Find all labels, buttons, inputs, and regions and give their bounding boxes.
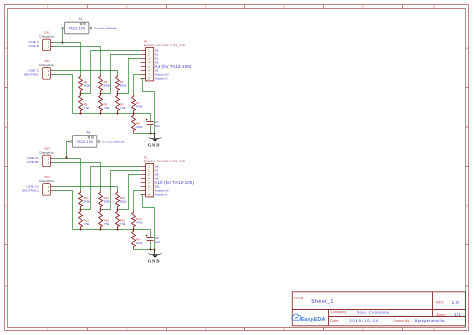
svg-text:TA12-100: TA12-100 (76, 140, 93, 144)
svg-text:500k: 500k (104, 200, 111, 204)
resistor R13 500k (99, 191, 103, 210)
svg-text:EasyEDA: EasyEDA (301, 317, 326, 323)
junction dot divider mid R13 (100, 209, 102, 211)
svg-text:NEUTRAL: NEUTRAL (24, 73, 39, 77)
svg-text:7.5k: 7.5k (84, 106, 90, 110)
resistor R16 500k (116, 191, 120, 210)
junction dot rail R10 (133, 229, 135, 231)
current transformer module A3 TA12-100 (62, 17, 117, 34)
current transformer module A4 TA12-100 (70, 130, 125, 147)
wire TA12 pin1 to junction (62, 29, 64, 43)
junction dot divider mid R11 (80, 209, 82, 211)
svg-text:B: B (5, 125, 7, 129)
svg-text:470k: 470k (136, 241, 143, 245)
svg-text:1/1: 1/1 (454, 312, 461, 317)
svg-text:Your Company: Your Company (357, 310, 390, 315)
wire header pin7 5V to bias resistor top (134, 75, 141, 95)
resistor R3 7.5k (99, 94, 103, 114)
wire divider1 mid to header pin1 (81, 167, 141, 210)
resistor R8 470k (132, 114, 136, 134)
junction dot rail R14 (100, 229, 102, 231)
wire header pin8 to ground (141, 195, 155, 250)
junction dot capacitor ground (150, 249, 152, 251)
EasyEDA logo (292, 314, 325, 323)
junction dot rail R15 (117, 229, 119, 231)
svg-text:470k: 470k (136, 125, 143, 129)
svg-text:Arduino G: Arduino G (155, 193, 168, 197)
resistor R4 500k (99, 75, 103, 94)
svg-text:Bjesperancilla: Bjesperancilla (415, 318, 445, 323)
svg-text:Changzhou: Changzhou (39, 151, 55, 155)
svg-text:470k: 470k (136, 221, 143, 225)
svg-text:Changzhou: Changzhou (39, 179, 55, 183)
svg-text:7.5k: 7.5k (84, 222, 90, 226)
wire divider3 mid to header pin3 (118, 59, 141, 94)
wire divider2 mid to header pin2 (101, 171, 141, 210)
svg-text:T1 (current): 50A/100mA: T1 (current): 50A/100mA (94, 27, 117, 30)
wire header pin8 to ground (141, 79, 155, 134)
svg-text:D: D (466, 284, 468, 288)
resistor R1 500k (116, 75, 120, 94)
resistor R5 7.5k (79, 94, 83, 114)
wire neutral to bottom rail (54, 191, 73, 230)
svg-text:7.5k: 7.5k (120, 222, 126, 226)
wire line-C to divider 3 top (54, 187, 118, 191)
junction dot rail R3 (100, 113, 102, 115)
svg-text:500k: 500k (84, 200, 91, 204)
bottom rail wire (73, 113, 151, 115)
svg-text:7.5k: 7.5k (120, 106, 126, 110)
wire line-B to divider 2 top (54, 47, 101, 75)
svg-text:Arduino G: Arduino G (155, 77, 168, 81)
resistor R14 7.5k (99, 210, 103, 230)
svg-text:A4: A4 (86, 130, 90, 134)
svg-text:B: B (466, 125, 468, 129)
resistor R11 500k (79, 191, 83, 210)
resistor R7 470k (132, 95, 136, 114)
svg-text:Drawn By:: Drawn By: (394, 319, 411, 323)
svg-text:Date:: Date: (330, 319, 339, 323)
svg-text:TA12-100: TA12-100 (68, 27, 85, 31)
capacitor C1 1uF (146, 114, 161, 134)
svg-text:500k: 500k (104, 84, 111, 88)
svg-text:Company:: Company: (330, 310, 347, 314)
svg-text:GND: GND (148, 258, 161, 263)
svg-text:500k: 500k (120, 200, 127, 204)
svg-text:1.0: 1.0 (452, 300, 460, 305)
wire header pin7 5V to bias resistor top (134, 191, 141, 211)
svg-text:Sheet_1: Sheet_1 (311, 299, 333, 305)
junction dot divider mid R1 (117, 93, 119, 95)
junction dot line-A (65, 156, 67, 158)
svg-text:2019-10-04: 2019-10-04 (349, 318, 378, 323)
wire neutral to bottom rail (54, 75, 73, 114)
svg-text:A10 (for TA12-100): A10 (for TA12-100) (155, 180, 195, 185)
junction dot rail R7 (133, 113, 135, 115)
svg-text:D: D (5, 284, 7, 288)
bottom rail wire (73, 229, 151, 231)
wire TA12 pin1 to junction (67, 142, 70, 158)
ground rail wire (134, 249, 155, 251)
svg-text:1uF: 1uF (155, 124, 160, 128)
junction dot ground stem (154, 249, 156, 251)
resistor R2 7.5k (116, 94, 120, 114)
resistor R12 7.5k (79, 210, 83, 230)
svg-text:470k: 470k (136, 105, 143, 109)
title block frame (292, 292, 465, 326)
svg-text:REV:: REV: (436, 300, 444, 304)
wire line-A to divider 1 top (54, 43, 81, 75)
svg-text:A: A (466, 46, 468, 50)
svg-text:T1 (current): 50A/100mA: T1 (current): 50A/100mA (102, 141, 125, 144)
svg-text:1uF: 1uF (155, 240, 160, 244)
svg-text:Header-Female-2.54_1x8: Header-Female-2.54_1x8 (144, 43, 185, 47)
resistor R6 500k (79, 75, 83, 94)
resistor R9 470k (132, 230, 136, 250)
junction dot divider mid R6 (80, 93, 82, 95)
svg-text:A3: A3 (78, 17, 82, 21)
svg-text:Sheet:: Sheet: (436, 313, 447, 317)
svg-text:NEUTRAL1: NEUTRAL1 (22, 189, 39, 193)
header net labels (155, 49, 169, 81)
connector CN3 Changzhou (39, 147, 55, 167)
header net labels (155, 165, 169, 197)
svg-text:TITLE:: TITLE: (294, 296, 304, 300)
svg-text:A: A (5, 46, 7, 50)
wire divider1 mid to header pin1 (81, 51, 141, 94)
svg-text:C: C (466, 204, 468, 208)
ground symbol GND (148, 134, 162, 148)
ground symbol GND (148, 250, 162, 264)
wire divider3 mid to header pin3 (118, 175, 141, 210)
wire line-C to divider 3 top (54, 71, 118, 75)
capacitor C2 1uF (146, 230, 161, 250)
svg-text:C: C (5, 204, 7, 208)
connector CN4 Changzhou (39, 175, 55, 195)
svg-text:500k: 500k (120, 84, 127, 88)
header P1 Header-Female-2.54_1x8 (141, 40, 186, 81)
svg-text:A4 (for TA12-100): A4 (for TA12-100) (155, 64, 192, 69)
junction dot rail R12 (80, 229, 82, 231)
junction dot ground stem (154, 133, 156, 135)
connector CN2 Changzhou (39, 59, 55, 79)
svg-text:LINE B1: LINE B1 (27, 160, 39, 164)
junction dot divider mid R16 (117, 209, 119, 211)
junction dot rail R2 (117, 113, 119, 115)
header P2 Header-Female-2.54_1x8 (141, 156, 186, 197)
svg-text:Changzhou: Changzhou (39, 63, 55, 67)
resistor R10 470k (132, 211, 136, 230)
junction dot divider mid R4 (100, 93, 102, 95)
wire line-B to divider 2 top (54, 163, 101, 191)
resistor R15 7.5k (116, 210, 120, 230)
junction dot rail R5 (80, 113, 82, 115)
junction dot line-A (61, 41, 63, 43)
svg-text:LINE B: LINE B (28, 44, 38, 48)
svg-text:500k: 500k (84, 84, 91, 88)
wire divider2 mid to header pin2 (101, 55, 141, 94)
junction dot capacitor ground (150, 133, 152, 135)
connector CN1 Changzhou (39, 31, 55, 51)
svg-text:Changzhou: Changzhou (39, 35, 55, 39)
svg-text:7.5k: 7.5k (104, 222, 110, 226)
ground rail wire (134, 133, 155, 135)
svg-text:Header-Female-2.54_1x8: Header-Female-2.54_1x8 (144, 159, 185, 163)
svg-text:GND: GND (148, 142, 161, 147)
svg-text:7.5k: 7.5k (104, 106, 110, 110)
wire line-A to divider 1 top (54, 159, 81, 191)
